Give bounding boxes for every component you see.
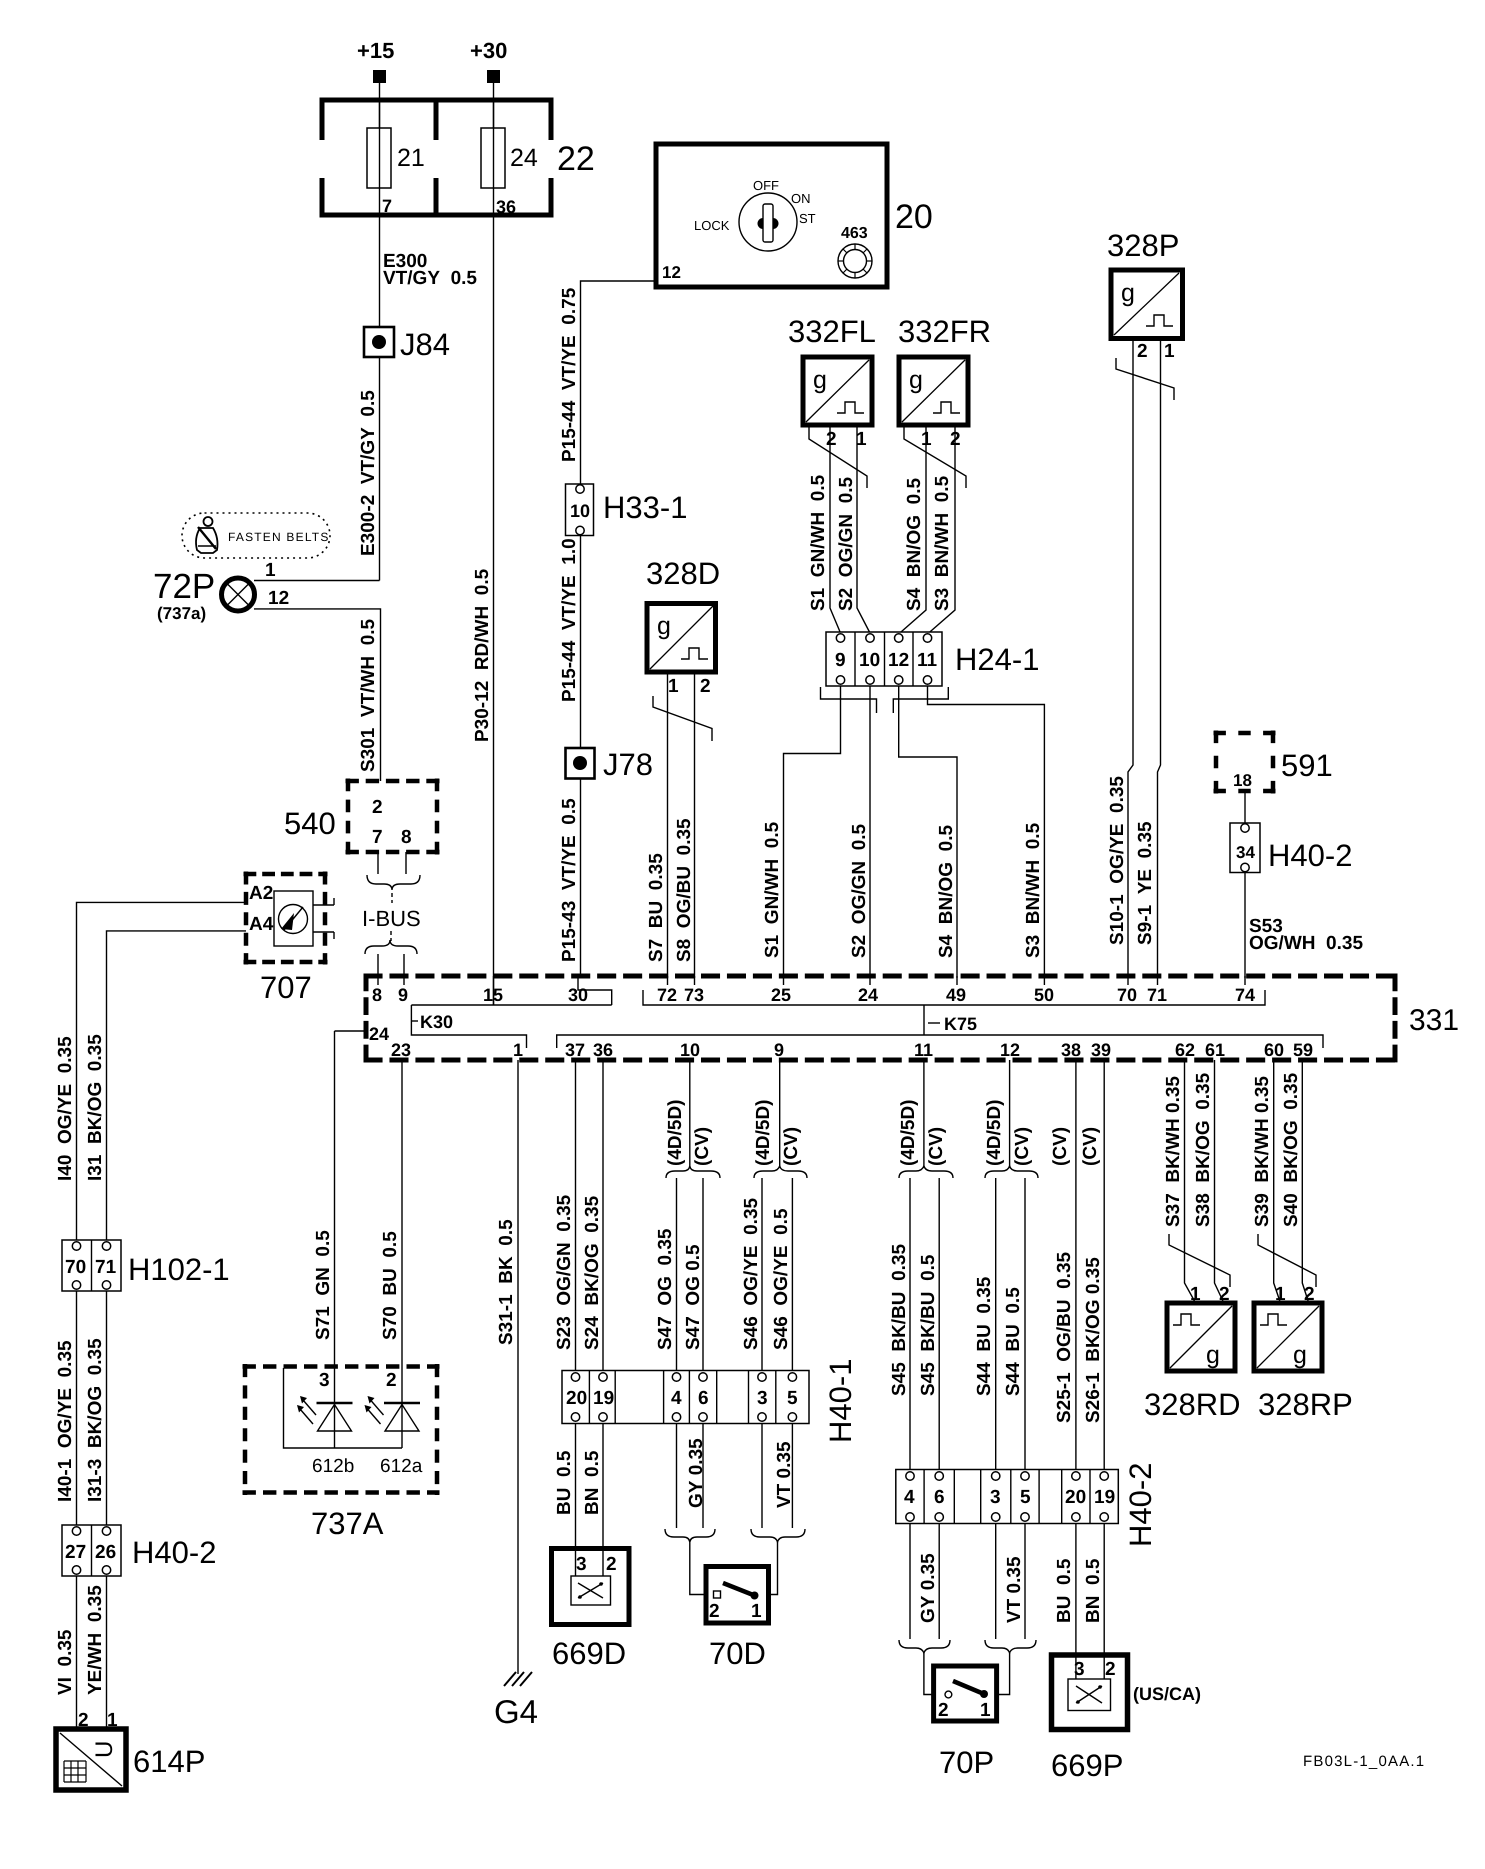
connector slash on 328RD wires (1169, 1234, 1230, 1287)
svg-text:(4D/5D): (4D/5D) (665, 1099, 686, 1166)
wire H102-1 pin71 down (106, 1291, 108, 1525)
junction J78 (566, 747, 653, 782)
svg-text:K30: K30 (420, 1012, 453, 1032)
svg-text:S37 BK/WH 0.35: S37 BK/WH 0.35 (1163, 1076, 1184, 1227)
wire H24-1 pin11 to 331 pin50 (928, 686, 1045, 978)
svg-text:S31-1 BK 0.5: S31-1 BK 0.5 (496, 1219, 517, 1345)
wire 331 pin39 to H40-2 pin19 (1103, 1060, 1105, 1470)
svg-text:S45 BK/BU 0.5: S45 BK/BU 0.5 (918, 1254, 939, 1396)
ignition key cylinder (694, 178, 816, 251)
svg-text:4: 4 (904, 1487, 915, 1508)
svg-text:70D: 70D (709, 1636, 766, 1671)
wire 331 pin11 split (923, 1060, 925, 1168)
svg-text:S26-1 BK/OG 0.35: S26-1 BK/OG 0.35 (1083, 1257, 1104, 1423)
wires H40-1 pins 4,6 merge (665, 1424, 715, 1595)
instrument 707 (244, 872, 335, 1006)
svg-text:I31-3 BK/OG 0.35: I31-3 BK/OG 0.35 (85, 1338, 106, 1502)
svg-text:(CV): (CV) (1012, 1127, 1033, 1166)
svg-text:I31 BK/OG 0.35: I31 BK/OG 0.35 (85, 1034, 106, 1181)
svg-text:S24 BK/OG 0.35: S24 BK/OG 0.35 (582, 1195, 603, 1350)
svg-text:332FL: 332FL (788, 314, 876, 349)
harness bracket under H24-1 (821, 687, 949, 713)
svg-text:(CV): (CV) (1080, 1127, 1101, 1166)
svg-text:g: g (657, 612, 671, 640)
svg-text:3: 3 (990, 1487, 1001, 1508)
svg-text:20: 20 (566, 1388, 587, 1409)
svg-text:36: 36 (593, 1040, 613, 1060)
svg-text:73: 73 (684, 985, 704, 1005)
svg-text:27: 27 (65, 1542, 86, 1563)
wire I-BUS to 331 pin9 (403, 954, 405, 978)
svg-text:11: 11 (914, 1040, 933, 1060)
svg-text:59: 59 (1293, 1040, 1313, 1060)
fuse 24 (481, 100, 538, 217)
svg-text:GY 0.35: GY 0.35 (686, 1438, 707, 1508)
split brace pin9 (754, 1166, 807, 1178)
wire 331 pin61 to 328RD pin2 (1215, 1060, 1224, 1303)
connector H40-2 right (896, 1463, 1158, 1547)
lamp 463 (838, 225, 872, 278)
wire branch to H40-1 pin6 (702, 1178, 704, 1371)
svg-text:5: 5 (1020, 1487, 1031, 1508)
svg-text:463: 463 (841, 225, 868, 242)
svg-text:P15-43 VT/YE 0.5: P15-43 VT/YE 0.5 (559, 798, 580, 962)
node K30 bus (411, 976, 611, 1048)
svg-text:591: 591 (1281, 748, 1333, 783)
wire 328D pin2 to 331 pin73 (694, 672, 696, 978)
svg-text:A4: A4 (249, 914, 274, 935)
I-BUS brace lower (365, 940, 417, 954)
svg-text:328P: 328P (1107, 228, 1179, 263)
svg-text:S1 GN/WH 0.5: S1 GN/WH 0.5 (762, 821, 783, 958)
connector slash on 332FL wires (809, 427, 867, 488)
wire H40-1 pin20 to 669D pin3 (575, 1424, 577, 1577)
svg-text:10: 10 (570, 501, 590, 521)
connector slash on 328D wires (653, 696, 712, 741)
svg-text:S2 OG/GN 0.5: S2 OG/GN 0.5 (836, 476, 857, 611)
fasten belts indicator plate (182, 513, 330, 558)
wire J78 to 331 pin30 (580, 779, 582, 979)
svg-text:BN 0.5: BN 0.5 (582, 1450, 603, 1515)
svg-text:707: 707 (260, 970, 312, 1005)
lamp 669D (552, 1549, 630, 1672)
switch 70D (706, 1567, 769, 1672)
svg-text:20: 20 (895, 198, 933, 236)
svg-text:5: 5 (787, 1388, 798, 1409)
svg-text:g: g (813, 366, 827, 394)
switch 70P (934, 1666, 997, 1780)
svg-text:VT 0.35: VT 0.35 (1004, 1556, 1025, 1623)
ground G4 (494, 1672, 538, 1730)
svg-text:S3 BN/WH 0.5: S3 BN/WH 0.5 (932, 475, 953, 611)
wire 328P pin1 to 331 pin71 (1158, 339, 1161, 979)
wire label E300 VT/GY 0.5 (383, 251, 477, 289)
svg-text:26: 26 (95, 1542, 116, 1563)
connector 591 (1214, 731, 1333, 794)
fuse 21 (367, 100, 425, 216)
svg-text:8: 8 (401, 827, 412, 848)
svg-text:2: 2 (386, 1370, 397, 1391)
svg-text:9: 9 (398, 985, 408, 1005)
wire 737A internal return (284, 1368, 403, 1448)
svg-text:S25-1 OG/BU 0.35: S25-1 OG/BU 0.35 (1054, 1251, 1075, 1423)
svg-text:I40-1 OG/YE 0.35: I40-1 OG/YE 0.35 (55, 1340, 76, 1502)
svg-text:(CV): (CV) (781, 1127, 802, 1166)
wire 328D pin1 to 331 pin72 (667, 672, 669, 978)
svg-text:9: 9 (835, 650, 846, 671)
node +15 supply (357, 38, 394, 83)
svg-text:S46 OG/YE 0.35: S46 OG/YE 0.35 (741, 1197, 762, 1350)
svg-text:70: 70 (65, 1257, 86, 1278)
wire 331 pin38 to H40-2 pin20 (1075, 1060, 1077, 1470)
331 bottom pin numbers (391, 1040, 1313, 1060)
svg-text:612a: 612a (380, 1456, 423, 1477)
wire H33-1 to J78 (580, 536, 582, 749)
svg-text:2: 2 (826, 429, 837, 450)
svg-text:VT/GY 0.5: VT/GY 0.5 (383, 268, 477, 289)
svg-text:(4D/5D): (4D/5D) (898, 1099, 919, 1166)
wire 707 A2 to H102-1 pin70 (77, 902, 247, 1240)
svg-text:S2 OG/GN 0.5: S2 OG/GN 0.5 (849, 823, 870, 958)
wire 332FL pin1 to H24-1 pin10 (857, 425, 870, 633)
svg-text:24: 24 (510, 144, 538, 172)
connector H33-1 (566, 484, 688, 536)
svg-text:10: 10 (859, 650, 880, 671)
wire H24-1 pin9 to 331 pin25 (784, 686, 841, 978)
svg-text:18: 18 (1233, 771, 1252, 790)
wire 331 pin62 to 328RD pin1 (1185, 1060, 1196, 1303)
connector H40-2 left (62, 1525, 216, 1576)
svg-text:71: 71 (1147, 985, 1167, 1005)
svg-text:S10-1 OG/YE 0.35: S10-1 OG/YE 0.35 (1107, 776, 1128, 945)
connector 540 (284, 779, 440, 855)
svg-text:YE/WH 0.35: YE/WH 0.35 (85, 1585, 106, 1695)
svg-text:H102-1: H102-1 (128, 1252, 230, 1287)
svg-text:H40-2: H40-2 (1268, 838, 1352, 873)
svg-text:23: 23 (391, 1040, 411, 1060)
svg-text:I40 OG/YE 0.35: I40 OG/YE 0.35 (55, 1036, 76, 1181)
wire H40-2 pin19 to 669P pin2 (1103, 1524, 1105, 1680)
wire 707 A4 to H102-1 pin71 (107, 931, 247, 1240)
svg-text:669P: 669P (1051, 1748, 1123, 1783)
svg-text:24: 24 (858, 985, 878, 1005)
gauge 614P (56, 1710, 205, 1790)
wire branch to H40-1 pin3 (761, 1178, 763, 1371)
connector slash on 332FR wires (904, 427, 966, 488)
svg-text:S40 BK/OG 0.35: S40 BK/OG 0.35 (1281, 1072, 1302, 1227)
wire +15 to fusebox (379, 83, 381, 128)
svg-text:34: 34 (1236, 843, 1255, 862)
svg-text:J78: J78 (603, 747, 653, 782)
svg-text:49: 49 (946, 985, 966, 1005)
svg-text:g: g (1206, 1341, 1220, 1369)
svg-text:GY 0.35: GY 0.35 (918, 1553, 939, 1623)
wire H24-1 pin10 to 331 pin24 (869, 686, 871, 978)
svg-text:(US/CA): (US/CA) (1133, 1684, 1201, 1704)
svg-text:(CV): (CV) (692, 1127, 713, 1166)
wire 331 pin9 split (779, 1060, 781, 1168)
svg-text:+15: +15 (357, 38, 394, 63)
wire 331 pin10 split (689, 1060, 691, 1168)
svg-text:1: 1 (265, 560, 276, 581)
svg-text:37: 37 (565, 1040, 585, 1060)
svg-text:7: 7 (382, 196, 392, 216)
svg-text:FASTEN BELTS: FASTEN BELTS (228, 530, 330, 544)
svg-text:OG/WH 0.35: OG/WH 0.35 (1249, 933, 1363, 954)
svg-text:BN 0.5: BN 0.5 (1083, 1558, 1104, 1623)
svg-text:E300-2 VT/GY 0.5: E300-2 VT/GY 0.5 (358, 390, 379, 556)
connector slash on 328P wires (1116, 358, 1174, 400)
svg-text:19: 19 (1094, 1487, 1115, 1508)
svg-text:S44 BU 0.5: S44 BU 0.5 (1003, 1287, 1024, 1396)
svg-text:G4: G4 (494, 1693, 538, 1730)
svg-text:328D: 328D (646, 556, 720, 591)
svg-text:g: g (1293, 1341, 1307, 1369)
wire 331 pin36 to H40-1 pin19 (602, 1060, 604, 1371)
I-BUS dashes (391, 893, 393, 903)
svg-text:S3 BN/WH 0.5: S3 BN/WH 0.5 (1023, 822, 1044, 958)
wire branch to H40-2 pin3 (995, 1178, 997, 1470)
svg-text:(737a): (737a) (157, 604, 206, 623)
svg-text:P15-44 VT/YE 1.0: P15-44 VT/YE 1.0 (559, 538, 580, 702)
svg-text:ON: ON (791, 191, 811, 206)
svg-text:25: 25 (771, 985, 791, 1005)
svg-text:22: 22 (557, 140, 595, 178)
wire branch to H40-2 pin6 (938, 1178, 940, 1470)
wire 72P pin1 (254, 580, 380, 582)
wire 331 pin1 to ground G4 (517, 1060, 519, 1674)
svg-text:62: 62 (1175, 1040, 1195, 1060)
wire H102-1 pin70 down (76, 1291, 78, 1525)
svg-text:612b: 612b (312, 1456, 354, 1477)
svg-text:BU 0.5: BU 0.5 (554, 1450, 575, 1515)
LED 612b (297, 1396, 354, 1477)
sensor 332FL (788, 314, 876, 450)
svg-text:12: 12 (268, 588, 289, 609)
svg-text:72P: 72P (153, 567, 215, 606)
svg-text:(4D/5D): (4D/5D) (984, 1099, 1005, 1166)
svg-text:S9-1 YE 0.35: S9-1 YE 0.35 (1135, 821, 1156, 945)
wire H40-2 pin27 to 614P pin2 (76, 1576, 78, 1729)
svg-text:331: 331 (1409, 1004, 1459, 1037)
wire H40-2 pin26 to 614P pin1 (106, 1576, 108, 1729)
svg-text:H33-1: H33-1 (603, 490, 687, 525)
svg-text:38: 38 (1061, 1040, 1081, 1060)
sensor 328D (646, 556, 720, 697)
wire branch to H40-2 pin4 (909, 1178, 911, 1470)
lamp 72P (153, 567, 255, 623)
svg-text:9: 9 (774, 1040, 784, 1060)
wire branch to H40-1 pin5 (791, 1178, 793, 1371)
wire 72P pin12 (254, 609, 381, 781)
wire J84 to 72P pin1 junction (379, 357, 381, 581)
svg-text:328RP: 328RP (1258, 1387, 1353, 1422)
svg-text:+30: +30 (470, 38, 507, 63)
ignition switch 20 box (656, 144, 887, 287)
wire 331 pin23 to 737A pin2 (401, 1060, 403, 1403)
svg-text:S301 VT/WH 0.5: S301 VT/WH 0.5 (358, 618, 379, 772)
svg-text:737A: 737A (311, 1506, 384, 1541)
ECU 331 box (364, 974, 1460, 1063)
svg-text:2: 2 (1105, 1659, 1116, 1680)
I-BUS brace upper (367, 875, 420, 890)
svg-text:H40-2: H40-2 (1123, 1463, 1158, 1547)
svg-text:74: 74 (1235, 985, 1255, 1005)
svg-text:36: 36 (496, 197, 516, 217)
svg-text:1: 1 (751, 1601, 762, 1622)
wire 328P pin2 to 331 pin70 (1128, 339, 1133, 979)
svg-text:50: 50 (1034, 985, 1054, 1005)
svg-text:BU 0.5: BU 0.5 (1054, 1558, 1075, 1623)
svg-text:332FR: 332FR (898, 314, 991, 349)
junction J84 (364, 327, 450, 362)
wire 331 pin60 to 328RP pin1 (1274, 1060, 1281, 1303)
svg-text:ST: ST (799, 211, 816, 226)
connector H40-1 (562, 1359, 858, 1443)
svg-text:3: 3 (757, 1388, 768, 1409)
wire 540 pin7 (377, 852, 379, 874)
connector H102-1 (62, 1240, 230, 1291)
svg-text:2: 2 (938, 1700, 949, 1721)
svg-text:61: 61 (1205, 1040, 1225, 1060)
wire 332FR pin1 to H24-1 pin12 (899, 425, 926, 634)
svg-text:2: 2 (709, 1601, 720, 1622)
LED 612a (365, 1396, 423, 1477)
fuse box 22 frame (317, 100, 556, 215)
wire 331 pin12 split (1009, 1060, 1011, 1168)
svg-text:(CV): (CV) (1050, 1127, 1071, 1166)
svg-text:21: 21 (397, 144, 425, 172)
wires H40-2 pins 3,5 merge (985, 1524, 1036, 1695)
wire 332FL pin2 to H24-1 pin9 (830, 425, 841, 633)
svg-text:S8 OG/BU 0.35: S8 OG/BU 0.35 (674, 818, 695, 962)
svg-text:P30-12 RD/WH 0.5: P30-12 RD/WH 0.5 (472, 568, 493, 742)
wire I-BUS to 331 pin8 (377, 954, 379, 978)
svg-text:H40-2: H40-2 (132, 1535, 216, 1570)
svg-text:20: 20 (1065, 1487, 1086, 1508)
svg-text:1: 1 (513, 1040, 523, 1060)
wire 540 pin8 (405, 852, 407, 874)
svg-text:60: 60 (1264, 1040, 1284, 1060)
wire H40-2 pin20 to 669P pin3 (1075, 1524, 1077, 1680)
connector H24-1 (826, 632, 1039, 686)
svg-text:12: 12 (662, 263, 681, 282)
svg-text:VI 0.35: VI 0.35 (55, 1629, 76, 1695)
wires H40-1 pins 3,5 merge (751, 1424, 805, 1595)
svg-text:H24-1: H24-1 (955, 642, 1039, 677)
svg-text:24: 24 (369, 1024, 389, 1044)
svg-text:12: 12 (888, 650, 909, 671)
wire fuse21 pin7 to J84 (379, 215, 381, 327)
svg-text:3: 3 (1074, 1659, 1085, 1680)
node +30 supply (470, 38, 507, 83)
svg-text:3: 3 (576, 1554, 587, 1575)
wire +30 to fusebox (493, 83, 495, 128)
sensor 328RP (1254, 1284, 1353, 1422)
svg-text:614P: 614P (133, 1744, 205, 1779)
svg-text:4: 4 (671, 1388, 682, 1409)
svg-text:3: 3 (319, 1370, 330, 1391)
sensor 332FR (898, 314, 991, 450)
svg-text:H40-1: H40-1 (823, 1359, 858, 1443)
wire H40-2 pin34 to 331 pin74 (1244, 873, 1246, 979)
split brace pin10 (666, 1166, 720, 1178)
svg-text:g: g (1121, 279, 1135, 307)
sensor 328P (1107, 228, 1183, 362)
svg-text:S47 OG 0.5: S47 OG 0.5 (683, 1244, 704, 1350)
svg-text:S47 OG 0.35: S47 OG 0.35 (655, 1228, 676, 1350)
svg-text:S39 BK/WH 0.35: S39 BK/WH 0.35 (1252, 1076, 1273, 1227)
svg-text:70: 70 (1117, 985, 1137, 1005)
svg-text:70P: 70P (939, 1745, 994, 1780)
svg-text:669D: 669D (552, 1636, 626, 1671)
svg-text:g: g (909, 366, 923, 394)
svg-text:(CV): (CV) (926, 1127, 947, 1166)
svg-text:6: 6 (934, 1487, 945, 1508)
svg-text:S38 BK/OG 0.35: S38 BK/OG 0.35 (1193, 1072, 1214, 1227)
svg-text:VT 0.35: VT 0.35 (774, 1441, 795, 1508)
wire 331 pin37 to H40-1 pin20 (575, 1060, 577, 1371)
svg-text:2: 2 (1137, 341, 1148, 362)
lamp unit 737A (243, 1364, 440, 1541)
wire branch to H40-2 pin5 (1024, 1178, 1026, 1470)
svg-text:J84: J84 (400, 327, 450, 362)
svg-text:39: 39 (1091, 1040, 1111, 1060)
svg-text:11: 11 (917, 650, 938, 671)
svg-text:S4 BN/OG 0.5: S4 BN/OG 0.5 (904, 478, 925, 611)
svg-text:1: 1 (980, 1700, 991, 1721)
wire H40-1 pin19 to 669D pin2 (602, 1424, 604, 1577)
svg-text:S7 BU 0.35: S7 BU 0.35 (646, 853, 667, 962)
svg-text:S71 GN 0.5: S71 GN 0.5 (313, 1230, 334, 1340)
svg-text:10: 10 (680, 1040, 700, 1060)
lamp 669P (1051, 1655, 1201, 1783)
svg-text:7: 7 (372, 827, 383, 848)
331 top pin numbers (372, 985, 1255, 1005)
svg-text:12: 12 (1000, 1040, 1020, 1060)
svg-text:U: U (91, 1741, 118, 1758)
svg-text:S70 BU 0.5: S70 BU 0.5 (380, 1231, 401, 1340)
svg-text:71: 71 (95, 1257, 117, 1278)
svg-text:I-BUS: I-BUS (362, 906, 421, 931)
svg-text:P15-44 VT/YE 0.75: P15-44 VT/YE 0.75 (559, 287, 580, 462)
wire 591 pin18 to H40-2 pin34 (1244, 791, 1246, 823)
svg-text:2: 2 (700, 676, 711, 697)
wire 331 pin59 to 328RP pin2 (1302, 1060, 1309, 1303)
svg-text:(4D/5D): (4D/5D) (753, 1099, 774, 1166)
svg-text:6: 6 (698, 1388, 709, 1409)
svg-text:FB03L-1_0AA.1: FB03L-1_0AA.1 (1303, 1753, 1425, 1770)
wire 332FR pin2 to H24-1 pin11 (928, 425, 956, 634)
svg-text:8: 8 (372, 985, 382, 1005)
svg-text:OFF: OFF (753, 178, 779, 193)
svg-text:2: 2 (372, 797, 383, 818)
wire branch to H40-1 pin4 (676, 1178, 678, 1371)
svg-text:LOCK: LOCK (694, 218, 730, 233)
connector H40-2 pin34 (1230, 823, 1352, 873)
331 top pin stubs (378, 976, 1245, 985)
svg-text:K75: K75 (944, 1014, 977, 1034)
svg-text:A2: A2 (249, 883, 273, 904)
331 left pin 24 (335, 1024, 390, 1044)
wire H24-1 pin12 to 331 pin49 (899, 686, 957, 978)
svg-text:2: 2 (606, 1554, 617, 1575)
svg-text:S45 BK/BU 0.35: S45 BK/BU 0.35 (889, 1244, 910, 1396)
connector slash on 328RP wires (1258, 1234, 1316, 1287)
wires H40-2 pins 4,6 merge (899, 1524, 950, 1695)
node K75 bus (557, 990, 1323, 1048)
wire label S53 OG/WH 0.35 (1249, 916, 1363, 954)
